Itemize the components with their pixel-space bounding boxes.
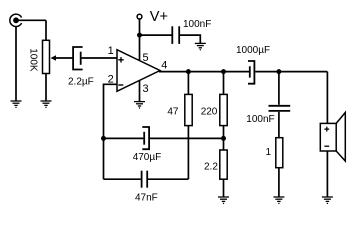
- wire corner down to pot: [45, 20, 47, 40]
- wire down to speaker: [326, 72, 328, 124]
- potentiometer wiper arrow: [51, 55, 74, 60]
- wire pin 3 to ground: [139, 81, 141, 102]
- resistor 47: [185, 94, 192, 125]
- wire V+ node to 100nF: [140, 34, 172, 36]
- V+ terminal: [137, 14, 142, 19]
- svg-text:100K: 100K: [27, 48, 38, 72]
- op-amp plus sign: [118, 57, 123, 62]
- capacitor 1000uF (polarized): [248, 61, 254, 84]
- svg-text:47nF: 47nF: [135, 193, 158, 204]
- speaker minus sign: [324, 145, 329, 147]
- ground (jack): [11, 101, 22, 108]
- svg-text:47: 47: [167, 106, 179, 117]
- junction V+ node: [137, 33, 142, 38]
- wire jack sleeve to ground: [15, 26, 17, 101]
- ground (supply decoupling): [195, 43, 206, 50]
- junction pin2 node: [101, 136, 106, 141]
- svg-text:2.2: 2.2: [204, 161, 218, 172]
- wire cap to pin 1: [82, 57, 117, 59]
- resistor 1: [276, 138, 283, 168]
- svg-text:1000µF: 1000µF: [236, 45, 270, 56]
- svg-text:3: 3: [143, 83, 149, 95]
- speaker plus sign: [324, 127, 329, 132]
- capacitor 470uF (polarized): [142, 127, 149, 149]
- junction zobel node: [276, 69, 281, 74]
- input jack J1: [10, 14, 22, 26]
- junction output-220: [221, 69, 226, 74]
- op-amp minus sign: [118, 84, 123, 86]
- svg-text:1: 1: [108, 45, 114, 57]
- junction output-47: [186, 69, 191, 74]
- svg-text:100nF: 100nF: [183, 19, 211, 30]
- op-amp U1 triangle: [117, 50, 160, 92]
- wire 1000uF to speaker corner: [255, 71, 327, 73]
- ground (op-amp pin 3): [134, 102, 145, 109]
- junction feedback node: [221, 136, 226, 141]
- potentiometer VR1 body: [43, 40, 50, 73]
- svg-text:1: 1: [265, 147, 271, 158]
- svg-text:V+: V+: [150, 9, 168, 25]
- wire 100nF to ground: [180, 35, 200, 43]
- svg-text:5: 5: [143, 52, 149, 64]
- svg-text:470µF: 470µF: [133, 152, 162, 163]
- svg-text:2.2µF: 2.2µF: [68, 76, 94, 87]
- speaker LS1: [320, 113, 345, 162]
- wire jack to corner: [17, 19, 46, 21]
- wire loop left vertical: [103, 138, 105, 179]
- wire 2.2 bottom to ground: [223, 179, 225, 197]
- wire output pin 4: [159, 71, 249, 73]
- capacitor 100nF (supply decoupling): [172, 26, 179, 44]
- capacitor 2.2uF (polarized): [73, 47, 83, 70]
- wire resistor 1 to ground: [278, 168, 280, 197]
- wire output to 47 top: [187, 72, 189, 95]
- resistor 2.2: [220, 150, 227, 179]
- capacitor 47nF: [142, 171, 148, 188]
- wire feedback line right of 470uF: [150, 137, 224, 139]
- ground (zobel): [273, 197, 284, 204]
- wire feedback line left of 470uF: [104, 137, 144, 139]
- wire 47 bottom down to loop: [187, 126, 189, 180]
- wire pin 2 to feedback vertical: [104, 84, 118, 138]
- ground (2.2): [218, 197, 229, 204]
- wire pot bottom to ground: [45, 74, 47, 102]
- wire loop bottom right of 47nF: [148, 178, 188, 180]
- wire 100nF to resistor 1: [278, 112, 280, 138]
- wire output to 220 top: [223, 72, 225, 95]
- svg-text:100nF: 100nF: [246, 114, 274, 125]
- svg-text:220: 220: [201, 107, 218, 118]
- wire zobel node down to 100nF: [278, 72, 280, 105]
- capacitor 100nF (zobel): [269, 106, 291, 111]
- ground (speaker): [322, 197, 333, 204]
- wire V+ down to pin 5: [139, 19, 141, 60]
- wire loop bottom left of 47nF: [104, 178, 141, 180]
- resistor 220: [220, 94, 227, 125]
- wire 220 bottom to 2.2 top: [223, 126, 225, 150]
- wire speaker to ground: [326, 151, 328, 197]
- svg-text:4: 4: [161, 60, 167, 72]
- ground (pot): [41, 101, 52, 108]
